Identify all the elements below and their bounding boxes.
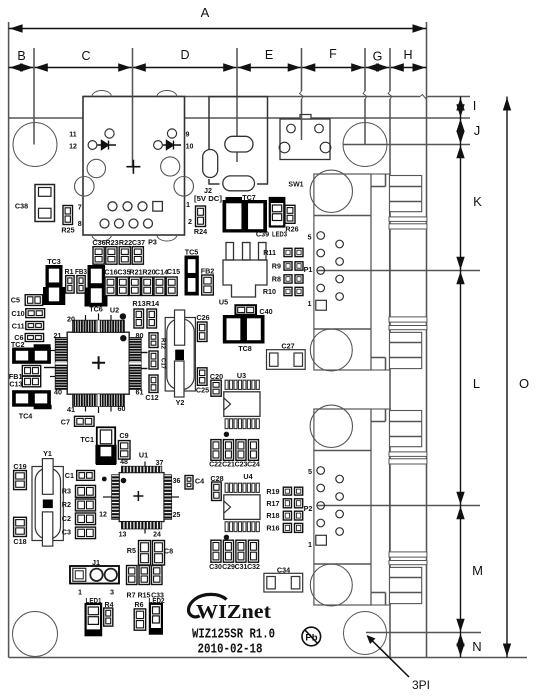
svg-text:C18: C18 — [13, 537, 26, 546]
capacitor TC5 — [185, 256, 198, 295]
U1 tick right — [172, 496, 179, 498]
J2 pad top-center — [225, 136, 253, 152]
capacitor C10 — [26, 309, 45, 318]
resistor R6 — [134, 609, 146, 630]
capacitor C3 — [76, 527, 96, 539]
svg-text:48: 48 — [120, 459, 128, 466]
svg-text:P1: P1 — [304, 265, 313, 274]
svg-text:C20: C20 — [210, 372, 223, 381]
svg-text:C9: C9 — [119, 431, 128, 440]
U1 center crosshair — [133, 491, 143, 501]
svg-text:Y2: Y2 — [176, 398, 185, 407]
svg-text:P3: P3 — [148, 238, 157, 247]
svg-text:R4: R4 — [105, 602, 114, 609]
resistor R18 — [283, 511, 291, 520]
RJ45 pin row upper — [108, 202, 117, 211]
P2 pin 6 — [336, 528, 344, 536]
capacitor C7 — [75, 416, 95, 426]
wire RJ45 bottom bump left — [92, 235, 111, 241]
svg-text:C39: C39 — [256, 230, 269, 239]
P1 jack screw block bottom — [390, 332, 422, 368]
resistor R25 — [63, 206, 73, 225]
U4 pin1 dot — [224, 535, 229, 540]
wire extension line y=118 right of board — [427, 117, 471, 119]
RJ45 post hole right — [161, 157, 180, 176]
svg-text:1: 1 — [308, 540, 312, 549]
capacitor C19 — [14, 471, 27, 490]
svg-text:36: 36 — [173, 478, 181, 485]
svg-text:Pb: Pb — [305, 633, 317, 644]
resistor R24 — [196, 206, 206, 227]
wire extension line at x=301.5 (SW1 center) — [301, 48, 303, 91]
resistor R19 — [283, 487, 291, 495]
wire extension line at x=132 (RJ45 center) — [132, 48, 134, 167]
capacitor C21 — [223, 440, 233, 461]
P2 pin 5 — [317, 467, 325, 475]
SW1 pin bottom-right — [320, 142, 331, 153]
svg-text:Y1: Y1 — [43, 449, 52, 458]
LED A cathode pad — [88, 141, 97, 150]
svg-text:24: 24 — [153, 532, 161, 539]
RJ45 flange hole right — [174, 177, 194, 197]
U3 pin row bottom — [225, 419, 228, 429]
wire board outline bottom edge extended right — [9, 657, 527, 659]
U1 tick left — [103, 496, 112, 498]
svg-text:R22: R22 — [119, 238, 132, 247]
capacitor C36 — [93, 247, 104, 265]
U2 pin band top — [73, 320, 125, 332]
svg-text:60: 60 — [118, 404, 126, 413]
svg-text:2010-02-18: 2010-02-18 — [198, 642, 263, 658]
capacitor C37 — [132, 247, 143, 265]
svg-text:WIZnet: WIZnet — [196, 601, 271, 623]
svg-text:G: G — [373, 50, 383, 64]
wire extension line y=270.5 (P1 center) — [317, 270, 480, 272]
svg-text:5: 5 — [308, 233, 312, 242]
P1 pin 7 — [336, 275, 344, 283]
P1 face band — [371, 174, 390, 370]
P1 mount strip top a — [389, 217, 427, 222]
P2 mount strip bottom a — [389, 552, 427, 557]
svg-text:R25: R25 — [61, 226, 74, 235]
svg-text:I: I — [473, 98, 477, 113]
svg-text:U4: U4 — [243, 472, 252, 481]
wire extension line at x=365 (mount hole TR) — [364, 48, 366, 91]
svg-text:37: 37 — [156, 460, 164, 467]
svg-text:12: 12 — [69, 144, 77, 151]
capacitor column right of U2 chip 1 — [149, 333, 158, 348]
svg-text:C13: C13 — [9, 380, 22, 389]
svg-text:R20: R20 — [142, 268, 155, 277]
svg-text:K: K — [473, 194, 482, 209]
P1 pin 8 — [336, 258, 344, 266]
svg-text:FB2: FB2 — [201, 267, 215, 276]
U2 tick marks left extra — [50, 350, 55, 352]
P2 divider bottom — [314, 563, 371, 565]
svg-text:C21: C21 — [222, 462, 235, 469]
svg-text:R18: R18 — [266, 511, 279, 520]
U2 pin band left — [55, 337, 67, 389]
U3 pin1 dot — [224, 432, 229, 437]
P1 pin 4 — [317, 249, 325, 257]
P1 divider bottom — [314, 328, 371, 330]
capacitor C22 — [211, 440, 221, 461]
U4 pin row top — [225, 483, 228, 492]
P2 mount strip top b — [389, 459, 427, 464]
mounting hole top-left — [13, 123, 57, 167]
svg-text:R23: R23 — [105, 238, 118, 247]
RJ45 post hole left — [87, 159, 105, 177]
capacitor C31 — [236, 540, 246, 562]
resistor R15 — [139, 566, 150, 585]
P2 board lock bottom — [310, 564, 352, 606]
svg-text:R14: R14 — [146, 299, 159, 308]
svg-text:H: H — [403, 48, 412, 62]
capacitor C2 — [76, 513, 96, 525]
resistor R9 — [284, 262, 292, 270]
svg-text:13: 13 — [119, 532, 127, 539]
svg-text:1: 1 — [308, 299, 312, 308]
svg-text:C12: C12 — [145, 393, 158, 402]
svg-text:C25: C25 — [196, 386, 209, 395]
svg-text:M: M — [472, 563, 483, 578]
svg-text:U5: U5 — [219, 298, 228, 307]
IC U3 body — [224, 392, 260, 417]
svg-text:TC7: TC7 — [242, 193, 256, 202]
svg-text:R19: R19 — [266, 487, 279, 496]
capacitor TC2 — [13, 348, 51, 363]
J2 pad bottom-center — [223, 176, 255, 191]
svg-text:L: L — [473, 376, 480, 391]
capacitor C40 — [235, 305, 256, 315]
svg-text:C36: C36 — [92, 238, 105, 247]
J1 pin 3 hole — [105, 569, 117, 581]
IC U1 QFP body — [119, 473, 164, 522]
svg-text:R8: R8 — [272, 275, 281, 284]
resistor R2 — [76, 499, 96, 511]
P1 mount strip top b — [389, 224, 427, 229]
resistor R5 chip a — [139, 541, 151, 566]
U1 pin band right — [164, 475, 172, 520]
capacitor C8 chip b — [153, 541, 165, 566]
resistor R13 — [134, 309, 144, 328]
capacitor C14 — [154, 277, 165, 296]
svg-text:C38: C38 — [15, 202, 28, 211]
resistor R23 — [106, 247, 117, 265]
LED B anode pad — [167, 129, 176, 138]
capacitor C6 — [25, 334, 43, 342]
SW1 pin bottom-left — [279, 142, 290, 153]
wire extension line y=96.5 (connector tops) — [83, 96, 420, 98]
wire extension line inside SW1 — [301, 115, 303, 141]
wire extension line y=505.5 (P2 center) — [317, 505, 480, 507]
svg-text:C40: C40 — [259, 307, 272, 316]
capacitor C4 — [185, 476, 193, 490]
P1 board lock bottom — [310, 329, 352, 371]
P1 pin 2 — [317, 284, 325, 292]
dimension line O at x=507 — [506, 97, 508, 658]
svg-text:C10: C10 — [11, 309, 24, 318]
dimension line B-H — [9, 67, 427, 69]
svg-text:B: B — [17, 49, 25, 63]
mounting hole bottom-left — [13, 612, 58, 657]
capacitor TC4 — [13, 391, 51, 407]
svg-text:U3: U3 — [237, 371, 246, 380]
svg-text:WIZ125SR R1.0: WIZ125SR R1.0 — [192, 627, 275, 643]
svg-text:11: 11 — [69, 132, 77, 139]
RJ45 pin row lower — [100, 219, 109, 228]
U2 pin band bottom — [73, 394, 125, 406]
svg-text:J1: J1 — [92, 558, 100, 567]
P2 board lock top — [310, 405, 352, 447]
P1 divider top — [314, 215, 371, 217]
LED LED2 — [150, 604, 162, 634]
LED LED3 — [270, 198, 285, 227]
capacitor C18 — [14, 517, 27, 536]
connector P3 RJ45 body — [83, 97, 185, 236]
regulator U5 pin 2 — [243, 243, 251, 261]
svg-text:R6: R6 — [135, 602, 144, 609]
svg-text:LED2: LED2 — [149, 598, 165, 605]
svg-text:C11: C11 — [12, 322, 25, 331]
P1 pin 3 center — [317, 267, 325, 275]
svg-text:R11: R11 — [263, 248, 276, 257]
wire board outline left edge + extension line B — [8, 22, 10, 658]
U1 pin band bottom — [121, 522, 161, 529]
wire RJ45 top bump right — [157, 90, 177, 96]
svg-text:R3: R3 — [62, 487, 71, 496]
diode symbol left LED — [98, 141, 117, 150]
svg-text:C2: C2 — [62, 514, 71, 523]
svg-text:20: 20 — [67, 315, 75, 324]
switch SW1 body — [280, 119, 330, 160]
capacitor column right of U2 chip 3 — [149, 375, 158, 393]
J1 pin 1 square — [73, 568, 86, 581]
P1 mount strip bottom a — [389, 317, 427, 322]
svg-text:D: D — [180, 48, 189, 62]
P2 face band — [371, 409, 390, 605]
connector J1 header body — [70, 566, 119, 584]
svg-text:C24: C24 — [247, 462, 260, 469]
svg-text:C4: C4 — [195, 477, 204, 486]
wire extension line inside RJ45 — [132, 97, 134, 168]
svg-text:7: 7 — [78, 203, 82, 212]
svg-text:TC3: TC3 — [47, 257, 61, 266]
svg-text:SW1: SW1 — [288, 182, 303, 189]
svg-text:R13: R13 — [132, 299, 145, 308]
crystal Y2 — [165, 318, 195, 392]
svg-text:U1: U1 — [139, 451, 148, 460]
SW1 pin top-right — [315, 124, 324, 133]
svg-text:C15: C15 — [167, 267, 180, 276]
capacitor C29 — [223, 540, 233, 562]
U2 tick right a — [141, 352, 147, 354]
svg-text:R17: R17 — [266, 499, 279, 508]
U2 center crosshair — [92, 356, 105, 369]
P1 pin 5 — [317, 232, 325, 240]
P1 pin 1 square — [316, 300, 327, 310]
U2 tick left — [44, 367, 55, 369]
capacitor C26 — [197, 322, 207, 342]
svg-text:TC6: TC6 — [89, 305, 103, 314]
P2 pin 4 — [317, 484, 325, 492]
resistor R26 — [285, 205, 295, 223]
resistor R4 — [104, 608, 113, 626]
capacitor column right of U2 chip 2 — [149, 351, 158, 369]
svg-text:LED1: LED1 — [86, 598, 102, 605]
svg-text:C28: C28 — [210, 474, 223, 483]
wire RJ45 top bump left — [92, 91, 111, 97]
svg-text:R9: R9 — [272, 262, 281, 271]
U1 pin band left — [112, 475, 120, 520]
resistor R14 — [147, 309, 157, 328]
fiducial crosshair RJ45 center — [126, 160, 140, 174]
U4 pin row bottom — [225, 522, 228, 532]
svg-text:C17: C17 — [160, 358, 166, 370]
svg-text:N: N — [472, 639, 481, 654]
svg-text:C27: C27 — [281, 342, 294, 351]
P2 pin 9 — [336, 475, 344, 483]
svg-text:TC8: TC8 — [238, 344, 252, 353]
svg-text:C34: C34 — [277, 566, 290, 575]
capacitor C30 — [211, 540, 221, 562]
ferrite FB3 — [77, 276, 85, 294]
capacitor C5 — [25, 295, 42, 306]
U1 pin band top — [121, 466, 161, 472]
resistor R7 — [127, 566, 138, 585]
U2 tick marks bottom — [85, 406, 87, 411]
U2 tick right b — [141, 368, 147, 370]
svg-text:12: 12 — [99, 512, 107, 519]
wire extension line y=144.5 (mount hole TR center) — [343, 144, 470, 146]
svg-text:R12: R12 — [160, 338, 166, 350]
capacitor TC1 — [97, 427, 115, 464]
connector P2 DB9 body — [314, 409, 371, 605]
capacitor C15 — [166, 277, 177, 296]
capacitor TC8 — [223, 316, 264, 344]
svg-text:9: 9 — [186, 132, 190, 139]
Pb-free symbol — [302, 627, 321, 646]
logo WIZnet swoosh — [188, 594, 226, 617]
svg-text:[5V DC]: [5V DC] — [194, 194, 222, 203]
svg-text:C31: C31 — [235, 564, 248, 571]
svg-text:U2: U2 — [110, 306, 119, 315]
svg-text:R5: R5 — [127, 546, 136, 555]
connector J2 power jack body — [209, 97, 268, 184]
svg-text:8: 8 — [78, 219, 82, 228]
U2 pin1 dot outside — [120, 313, 126, 319]
U1 pin1 dot outside — [102, 477, 107, 482]
svg-text:C8: C8 — [164, 547, 173, 556]
svg-text:C29: C29 — [222, 564, 235, 571]
svg-text:J: J — [474, 123, 481, 138]
P1 pin 9 — [336, 240, 344, 248]
svg-text:61: 61 — [136, 388, 144, 397]
capacitor TC6 — [88, 266, 105, 307]
dimension line A — [9, 28, 427, 30]
SW1 actuator tab — [300, 115, 311, 120]
capacitor C13 — [22, 376, 40, 387]
svg-text:C1: C1 — [65, 471, 74, 480]
svg-text:C22: C22 — [209, 462, 222, 469]
U3 pin row top — [225, 380, 228, 389]
mounting hole top-right — [343, 123, 387, 167]
ferrite FB1 — [22, 366, 40, 376]
svg-text:1: 1 — [186, 200, 190, 209]
resistor R8 — [284, 275, 292, 283]
svg-text:21: 21 — [54, 331, 62, 340]
P2 pin 8 — [336, 493, 344, 501]
capacitor C16 — [105, 277, 116, 296]
svg-text:E: E — [265, 48, 273, 62]
svg-text:R1: R1 — [65, 269, 74, 276]
svg-text:3PI: 3PI — [412, 678, 430, 692]
wire board outline top edge — [9, 117, 427, 119]
svg-text:C: C — [81, 49, 90, 63]
capacitor TC7 — [223, 201, 267, 233]
svg-text:R24: R24 — [194, 227, 207, 236]
IC U4 body — [224, 495, 260, 520]
svg-text:P2: P2 — [304, 504, 313, 513]
resistor R20 — [142, 277, 153, 296]
capacitor C38 — [35, 185, 55, 222]
svg-text:F: F — [329, 47, 337, 61]
svg-text:5: 5 — [308, 467, 312, 476]
wire extension line at x=237 (J2 center) — [236, 48, 238, 162]
svg-text:TC1: TC1 — [80, 435, 94, 444]
P2 pin 2 — [317, 519, 325, 527]
J2 pad left — [203, 150, 218, 178]
RJ45 pin square upper — [153, 202, 163, 212]
wire extension line at x=34 (mount hole TL) — [33, 48, 35, 145]
wire leader line to 3PI — [371, 639, 410, 677]
capacitor C9 — [118, 441, 130, 460]
svg-text:TC5: TC5 — [185, 248, 199, 257]
LED LED1 — [86, 604, 102, 635]
resistor R10 — [284, 287, 292, 295]
capacitor C28 — [212, 482, 222, 501]
svg-text:R7: R7 — [127, 593, 136, 600]
resistor R11 — [284, 248, 292, 256]
regulator U5 pin 1 — [226, 243, 234, 261]
svg-text:C30: C30 — [209, 564, 222, 571]
svg-text:25: 25 — [173, 512, 181, 519]
svg-text:C3: C3 — [62, 528, 71, 537]
U1 tick top — [144, 462, 146, 467]
svg-text:R10: R10 — [263, 287, 276, 296]
svg-text:R2: R2 — [62, 500, 71, 509]
connector P1 DB9 body — [314, 174, 371, 370]
P2 jack screw block top — [390, 411, 422, 447]
svg-text:10: 10 — [186, 144, 194, 151]
RJ45 flange hole left — [75, 177, 95, 197]
mounting hole bottom-right 3PI — [344, 612, 387, 655]
U1 pin1 dot inside — [121, 478, 127, 484]
resistor R21 — [129, 277, 140, 296]
wire board outline right edge + extension line H/A — [426, 22, 428, 658]
capacitor C20 — [211, 380, 221, 396]
resistor R16 — [283, 523, 291, 532]
IC U2 QFP body — [67, 332, 129, 394]
LED A anode pad — [105, 129, 114, 138]
regulator U5 body — [223, 260, 267, 297]
svg-text:2: 2 — [188, 217, 192, 226]
capacitor C35 — [117, 277, 128, 296]
U2 tick marks top — [85, 315, 87, 320]
svg-text:R16: R16 — [266, 524, 279, 533]
U2 pin band right — [129, 337, 141, 389]
wire extension line y=632.5 (mount hole BR center) — [366, 632, 481, 634]
